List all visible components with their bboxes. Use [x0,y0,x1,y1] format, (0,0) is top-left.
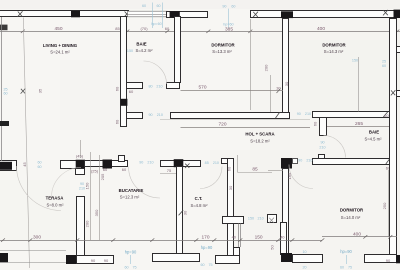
column M bottom [281,253,292,262]
wall: bottom ct piece [153,254,200,262]
svg-text:90: 90 [297,112,301,116]
axis marker on wall x385 [383,112,388,117]
door arc baie top [144,61,167,84]
column top B1 [170,11,180,17]
svg-text:350: 350 [94,209,99,216]
wall: baie2 top wall with stub (T) [313,112,397,118]
dim line hol small [268,170,283,172]
column I [174,159,184,167]
svg-text:60: 60 [313,121,318,126]
door arc bucatarie [129,167,161,199]
svg-text:90: 90 [298,159,302,163]
thin line x358 [358,57,360,112]
axis marker left [21,89,26,94]
svg-text:265: 265 [355,121,363,127]
svg-text:60: 60 [156,4,160,8]
dim ticks top [21,30,400,33]
svg-text:(25): (25) [91,169,99,174]
bottom dimension line [0,240,322,242]
wall: BAIE right wall [175,17,181,83]
svg-text:250: 250 [382,202,387,209]
svg-text:400: 400 [317,26,325,32]
svg-text:60: 60 [124,265,128,269]
axis marker ct wall [179,210,184,215]
svg-text:200: 200 [85,220,90,227]
axis marker on top wall x127 [124,11,129,16]
column G [76,160,85,169]
svg-text:60: 60 [37,160,41,164]
svg-text:40: 40 [280,235,285,240]
vertical dim lines terasa [90,152,92,240]
wall: dormitor bottom top wall [313,159,397,165]
svg-text:S=24.1 m²: S=24.1 m² [50,49,70,54]
wall: right exterior wall [390,19,397,257]
svg-text:50: 50 [270,245,275,250]
svg-text:S=18.2 m²: S=18.2 m² [250,138,270,143]
wall: hook wall (ct right / stairs) [228,159,234,256]
svg-text:hp=90: hp=90 [340,249,352,254]
column K bottom-left [0,253,8,262]
door arc terasa big [17,166,62,211]
axis line left x23 [23,18,29,269]
svg-text:S=8.0 m²: S=8.0 m² [46,202,64,207]
column F [0,162,12,170]
door swing marker stairs [269,218,274,223]
axis marker at ct wall top [185,164,190,169]
svg-text:170: 170 [201,235,209,241]
interior dim 720 [181,127,311,129]
svg-text:210: 210 [156,84,162,88]
door arc dormitor bottom [289,165,313,189]
stub right y91 [397,91,400,97]
wall: top exterior wall segment A (x0-127) [0,11,129,17]
svg-text:85: 85 [205,161,209,165]
svg-text:75: 75 [132,265,136,269]
dim ticks bottom [1,235,392,242]
svg-text:210: 210 [147,161,153,165]
svg-text:90: 90 [386,258,391,263]
svg-text:35: 35 [38,88,43,93]
svg-text:200: 200 [264,64,269,71]
vert dim line with 200 [270,75,272,112]
svg-text:150: 150 [127,49,133,53]
svg-text:90: 90 [80,182,84,186]
svg-text:720: 720 [218,122,226,128]
door arc baie right [324,136,346,158]
window in top wall (x127-167) [128,11,168,17]
svg-text:60: 60 [129,89,134,94]
svg-text:DORMITOR: DORMITOR [322,42,346,47]
svg-text:75: 75 [167,168,172,173]
axis marker on top wall left [18,11,23,16]
column hol corner J [281,158,292,169]
svg-text:S=4.5 m²: S=4.5 m² [364,136,382,141]
svg-text:S=4.2 m²: S=4.2 m² [135,48,153,53]
svg-text:(70): (70) [140,26,148,31]
svg-text:DORMITOR: DORMITOR [211,42,235,47]
wall: top segment C (x250-400) [251,11,400,18]
stub right y47 [397,47,400,53]
svg-text:210: 210 [157,113,163,117]
svg-text:60: 60 [103,167,108,172]
svg-text:C.T.: C.T. [195,196,203,201]
thin stair lines [238,223,240,247]
wall: stub right of baie door [167,83,180,89]
hollow sq below G [76,169,85,175]
column top-right C2 [394,10,400,18]
column L [66,255,77,264]
wall: entry step walls [216,256,240,264]
wall: hol top stub x127-143 [127,113,143,119]
wall: living bottom left piece [0,161,17,171]
svg-text:90: 90 [320,141,324,145]
door arc terasa side [52,168,82,198]
svg-text:210: 210 [305,112,311,116]
svg-text:S=13.3 m²: S=13.3 m² [212,49,232,54]
svg-text:10: 10 [302,250,306,254]
thin jamb line x250 [250,19,252,110]
svg-text:90: 90 [148,113,152,117]
svg-text:210: 210 [213,161,219,165]
svg-text:60: 60 [142,4,146,8]
window annotation blue (60|60 hp=60) at x159 [142,3,163,29]
svg-text:90: 90 [139,161,143,165]
blue window notes bottom [124,250,137,270]
svg-text:45: 45 [22,162,27,167]
wall: stair right wall to bottom [281,223,287,255]
left wall thin living [1,17,3,161]
svg-text:150: 150 [255,235,263,241]
svg-text:60: 60 [165,26,170,31]
axis marker on top wall x385 [383,10,388,16]
svg-text:hp=60: hp=60 [151,22,161,26]
svg-text:400: 400 [353,231,361,237]
dim 75 [160,173,177,175]
svg-text:75: 75 [208,263,212,267]
wall: partition between dormitors [283,19,289,113]
column N corner [396,255,400,263]
svg-text:60: 60 [382,64,386,68]
wall stub left mid [0,121,9,126]
tick and 60 on dormitor wall [386,159,390,164]
svg-text:60: 60 [200,263,204,267]
svg-text:60: 60 [227,166,232,171]
svg-text:85: 85 [252,166,258,172]
svg-text:20: 20 [302,265,306,269]
svg-text:TERASA: TERASA [46,195,64,200]
svg-text:(45): (45) [76,154,84,159]
column on BAIE wall [121,99,128,106]
svg-text:85: 85 [115,26,120,31]
svg-text:60: 60 [384,113,389,118]
svg-text:S=4.8 m²: S=4.8 m² [190,203,208,208]
wall: bottom right piece [365,255,397,263]
svg-text:570: 570 [198,85,206,91]
svg-text:450: 450 [54,26,62,32]
svg-text:30: 30 [284,81,289,86]
svg-text:150: 150 [248,216,254,220]
svg-text:30: 30 [183,210,188,215]
window annotation blue (90|60 hp=60) at x229 [222,5,235,28]
dim 265 baie [327,126,390,128]
svg-text:60: 60 [3,92,7,96]
svg-text:BUCATARIE: BUCATARIE [119,188,144,193]
svg-text:LIVING + DINING: LIVING + DINING [43,43,78,48]
wall: bottom bucatarie piece [77,256,114,264]
svg-text:300: 300 [33,235,41,241]
wall: terasa right long wall [77,197,85,257]
wall: bottom piece x292-322 [293,255,323,263]
svg-text:30: 30 [276,86,281,91]
notch above wall [119,156,125,162]
svg-text:205: 205 [100,173,105,180]
svg-text:60: 60 [340,265,344,269]
svg-text:60: 60 [122,167,127,172]
svg-text:60: 60 [115,86,120,91]
wall: hol west wall lower [283,169,289,254]
svg-text:BAIE: BAIE [136,42,146,47]
svg-text:150: 150 [85,182,90,189]
svg-text:S=12.3 m²: S=12.3 m² [120,195,140,200]
dimension line top [0,31,400,33]
wall: BAIE left wall [121,17,127,127]
svg-text:60: 60 [115,119,120,124]
column top A1 [71,11,80,17]
svg-text:385: 385 [225,26,233,32]
svg-text:hp=90: hp=90 [201,245,213,250]
svg-text:S=14.3 m²: S=14.3 m² [324,49,344,54]
dim 250 rotated right [388,170,390,237]
terasa bottom thin lines [0,250,66,252]
svg-text:165: 165 [287,172,292,179]
wall: bucatarie top right piece [161,161,201,167]
svg-text:150: 150 [352,59,358,63]
column top C1 [281,11,293,18]
svg-text:90: 90 [91,258,96,263]
svg-text:hp=60: hp=60 [223,22,233,26]
wall: C.T. left wall [177,167,183,254]
interior dim 570 [181,90,284,92]
svg-text:30: 30 [228,185,233,190]
svg-text:60: 60 [37,165,41,169]
svg-text:DORMITOR: DORMITOR [340,207,364,212]
dim 85 stairs [238,172,273,174]
wall: living bottom right thin piece [85,161,128,167]
column H [103,160,113,169]
wall: hol top main x170-289 [171,113,290,119]
wall: stub left of baie door [127,83,143,89]
svg-text:210: 210 [319,146,325,150]
svg-text:80: 80 [148,84,152,88]
svg-text:40: 40 [232,235,237,240]
svg-text:S=14.0 m²: S=14.0 m² [341,215,361,220]
door arc ct [200,167,222,189]
axis marker right wall [391,90,396,95]
axis marker on top wall x255 [253,12,258,18]
svg-text:90: 90 [104,258,109,263]
svg-text:BAIE: BAIE [369,130,379,135]
small wall stub top-left edge [0,25,8,31]
svg-text:hp=90: hp=90 [125,250,137,255]
svg-text:90: 90 [222,5,226,9]
wall: stair right small piece [268,215,277,223]
wall: living bottom mid piece [61,161,85,169]
svg-text:210: 210 [258,216,264,220]
svg-text:210: 210 [306,159,312,163]
small hollow square right of J [293,159,298,164]
wall: top segment B (x167-208) [167,12,208,18]
tick on hol wall [276,113,280,119]
svg-text:75: 75 [348,265,352,269]
svg-text:HOL + SCARA: HOL + SCARA [245,131,274,136]
svg-text:60: 60 [231,5,235,9]
